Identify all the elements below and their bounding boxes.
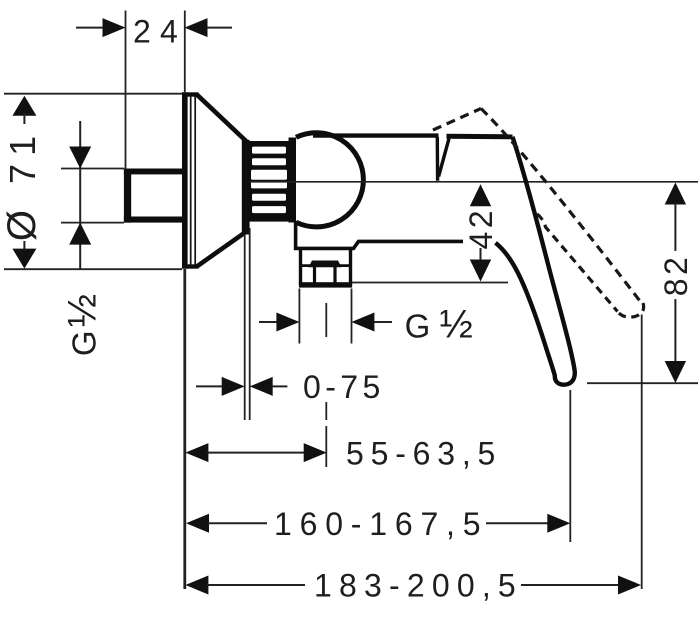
- threaded collar: [250, 141, 289, 222]
- dimension 0-75: [196, 369, 385, 405]
- centre axis line: [250, 181, 698, 183]
- wall pipe stub: [124, 169, 185, 223]
- dimension dia 71: [0, 96, 44, 269]
- svg-text:42: 42: [463, 207, 499, 249]
- svg-text:Ø 71: Ø 71: [0, 128, 44, 241]
- outlet extension line right: [351, 289, 353, 344]
- body underside and outlet boss: [296, 221, 463, 248]
- solid handle tip extension line: [569, 390, 571, 542]
- dia 71 top extension line: [4, 93, 185, 95]
- 82 bottom reference line: [587, 382, 698, 384]
- dimension 160-167,5: [186, 506, 570, 542]
- pipe stub bottom extension line: [61, 222, 124, 224]
- svg-text:183-200,5: 183-200,5: [314, 568, 523, 604]
- svg-text:82: 82: [658, 254, 694, 296]
- 42 bottom reference line: [352, 282, 508, 284]
- outlet hex nut: [299, 261, 352, 288]
- pipe stub top extension line: [61, 168, 124, 170]
- extension line left of 24 dim: [125, 11, 127, 169]
- svg-text:55-63,5: 55-63,5: [346, 435, 502, 471]
- handle dashed raised position top edge: [433, 109, 481, 131]
- dia 71 bottom extension line: [4, 268, 182, 270]
- body handle joint wedge: [437, 137, 449, 181]
- handle dashed tip: [618, 303, 644, 317]
- handle dashed raised position outer edge: [481, 109, 643, 306]
- rosette cone right edge bar: [242, 140, 250, 235]
- double extension lines 0-75: [245, 228, 250, 420]
- valve body circle: [296, 133, 363, 227]
- dimension G 1/2 wall pipe: [61, 121, 105, 356]
- outlet neck: [301, 250, 351, 266]
- handle dashed inner edge: [537, 214, 618, 312]
- dimension 55-63,5: [185, 435, 502, 471]
- svg-text:0-75: 0-75: [303, 369, 385, 405]
- dimension 183-200,5: [185, 568, 641, 604]
- escutcheon plate: [182, 92, 199, 268]
- dashed handle tip extension line: [641, 315, 643, 590]
- outlet extension line left: [298, 289, 300, 344]
- rosette cone top edge: [198, 95, 247, 141]
- dimension G 1/2 outlet: [259, 303, 473, 347]
- handle lever solid: [447, 136, 575, 384]
- main wall extension line: [184, 11, 186, 93]
- svg-text:G ½: G ½: [61, 294, 105, 356]
- svg-text:G ½: G ½: [405, 303, 473, 347]
- dimension 42: [463, 184, 499, 281]
- body top line to handle joint: [313, 133, 439, 137]
- rosette cone bottom edge: [198, 234, 244, 267]
- dimension 24: [76, 14, 232, 50]
- svg-text:160-167,5: 160-167,5: [274, 506, 488, 542]
- dimension 82: [658, 183, 694, 384]
- svg-text:24: 24: [133, 14, 187, 50]
- outlet centre axis chain line: [325, 303, 327, 467]
- body junction bar: [289, 138, 297, 223]
